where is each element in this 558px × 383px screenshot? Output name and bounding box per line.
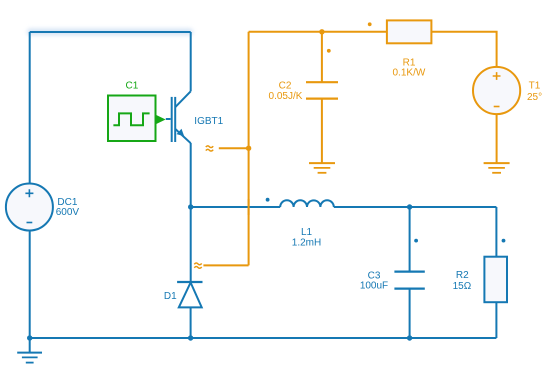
- svg-text:15Ω: 15Ω: [453, 281, 472, 292]
- svg-text:R2: R2: [456, 270, 469, 281]
- svg-text:D1: D1: [164, 291, 177, 302]
- svg-text:25°: 25°: [527, 92, 542, 103]
- svg-text:0.05J/K: 0.05J/K: [269, 91, 303, 102]
- svg-text:0.1K/W: 0.1K/W: [393, 68, 426, 79]
- svg-text:600V: 600V: [56, 207, 80, 218]
- svg-text:IGBT1: IGBT1: [194, 116, 223, 127]
- svg-text:L1: L1: [301, 227, 313, 238]
- svg-text:1.2mH: 1.2mH: [292, 238, 321, 249]
- svg-text:T1: T1: [529, 80, 541, 91]
- svg-text:C1: C1: [126, 80, 139, 91]
- svg-text:C2: C2: [279, 81, 292, 92]
- svg-text:100uF: 100uF: [360, 281, 388, 292]
